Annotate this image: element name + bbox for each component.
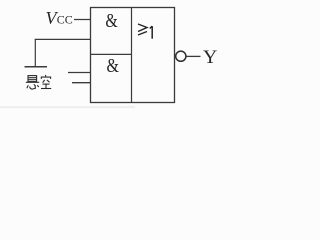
label 悬空 (floating) : hand-drawn glyph 空 xyxy=(41,75,51,89)
scan artifact smear at bottom edge xyxy=(0,106,135,108)
svg-text:&: & xyxy=(107,56,119,77)
svg-text:Y: Y xyxy=(203,47,218,68)
label 悬空 (floating) : hand-drawn glyph 悬 xyxy=(26,76,39,89)
wire output bubble to Y xyxy=(186,55,200,57)
svg-text:&: & xyxy=(105,11,117,32)
svg-text:CC: CC xyxy=(57,13,73,27)
gate U1 outline (AND-OR-INVERT block) xyxy=(91,8,175,103)
wire bottom AND input 1 (floating stub) xyxy=(68,72,91,74)
label ≥1 of OR section (slanted >= glyph, hand drawn) xyxy=(138,24,147,35)
open (floating) terminal bar xyxy=(25,66,48,68)
divider between top AND cell and bottom AND cell xyxy=(91,53,132,55)
wire bottom AND input 2 (floating stub) xyxy=(72,82,91,84)
inversion bubble at gate output xyxy=(176,51,186,61)
wire VCC to top AND input 1 xyxy=(74,19,91,21)
divider between AND column and OR section xyxy=(131,8,133,103)
wire floating terminal stem (vertical) xyxy=(34,39,36,66)
wire top AND input 2 (horizontal) xyxy=(35,38,91,40)
